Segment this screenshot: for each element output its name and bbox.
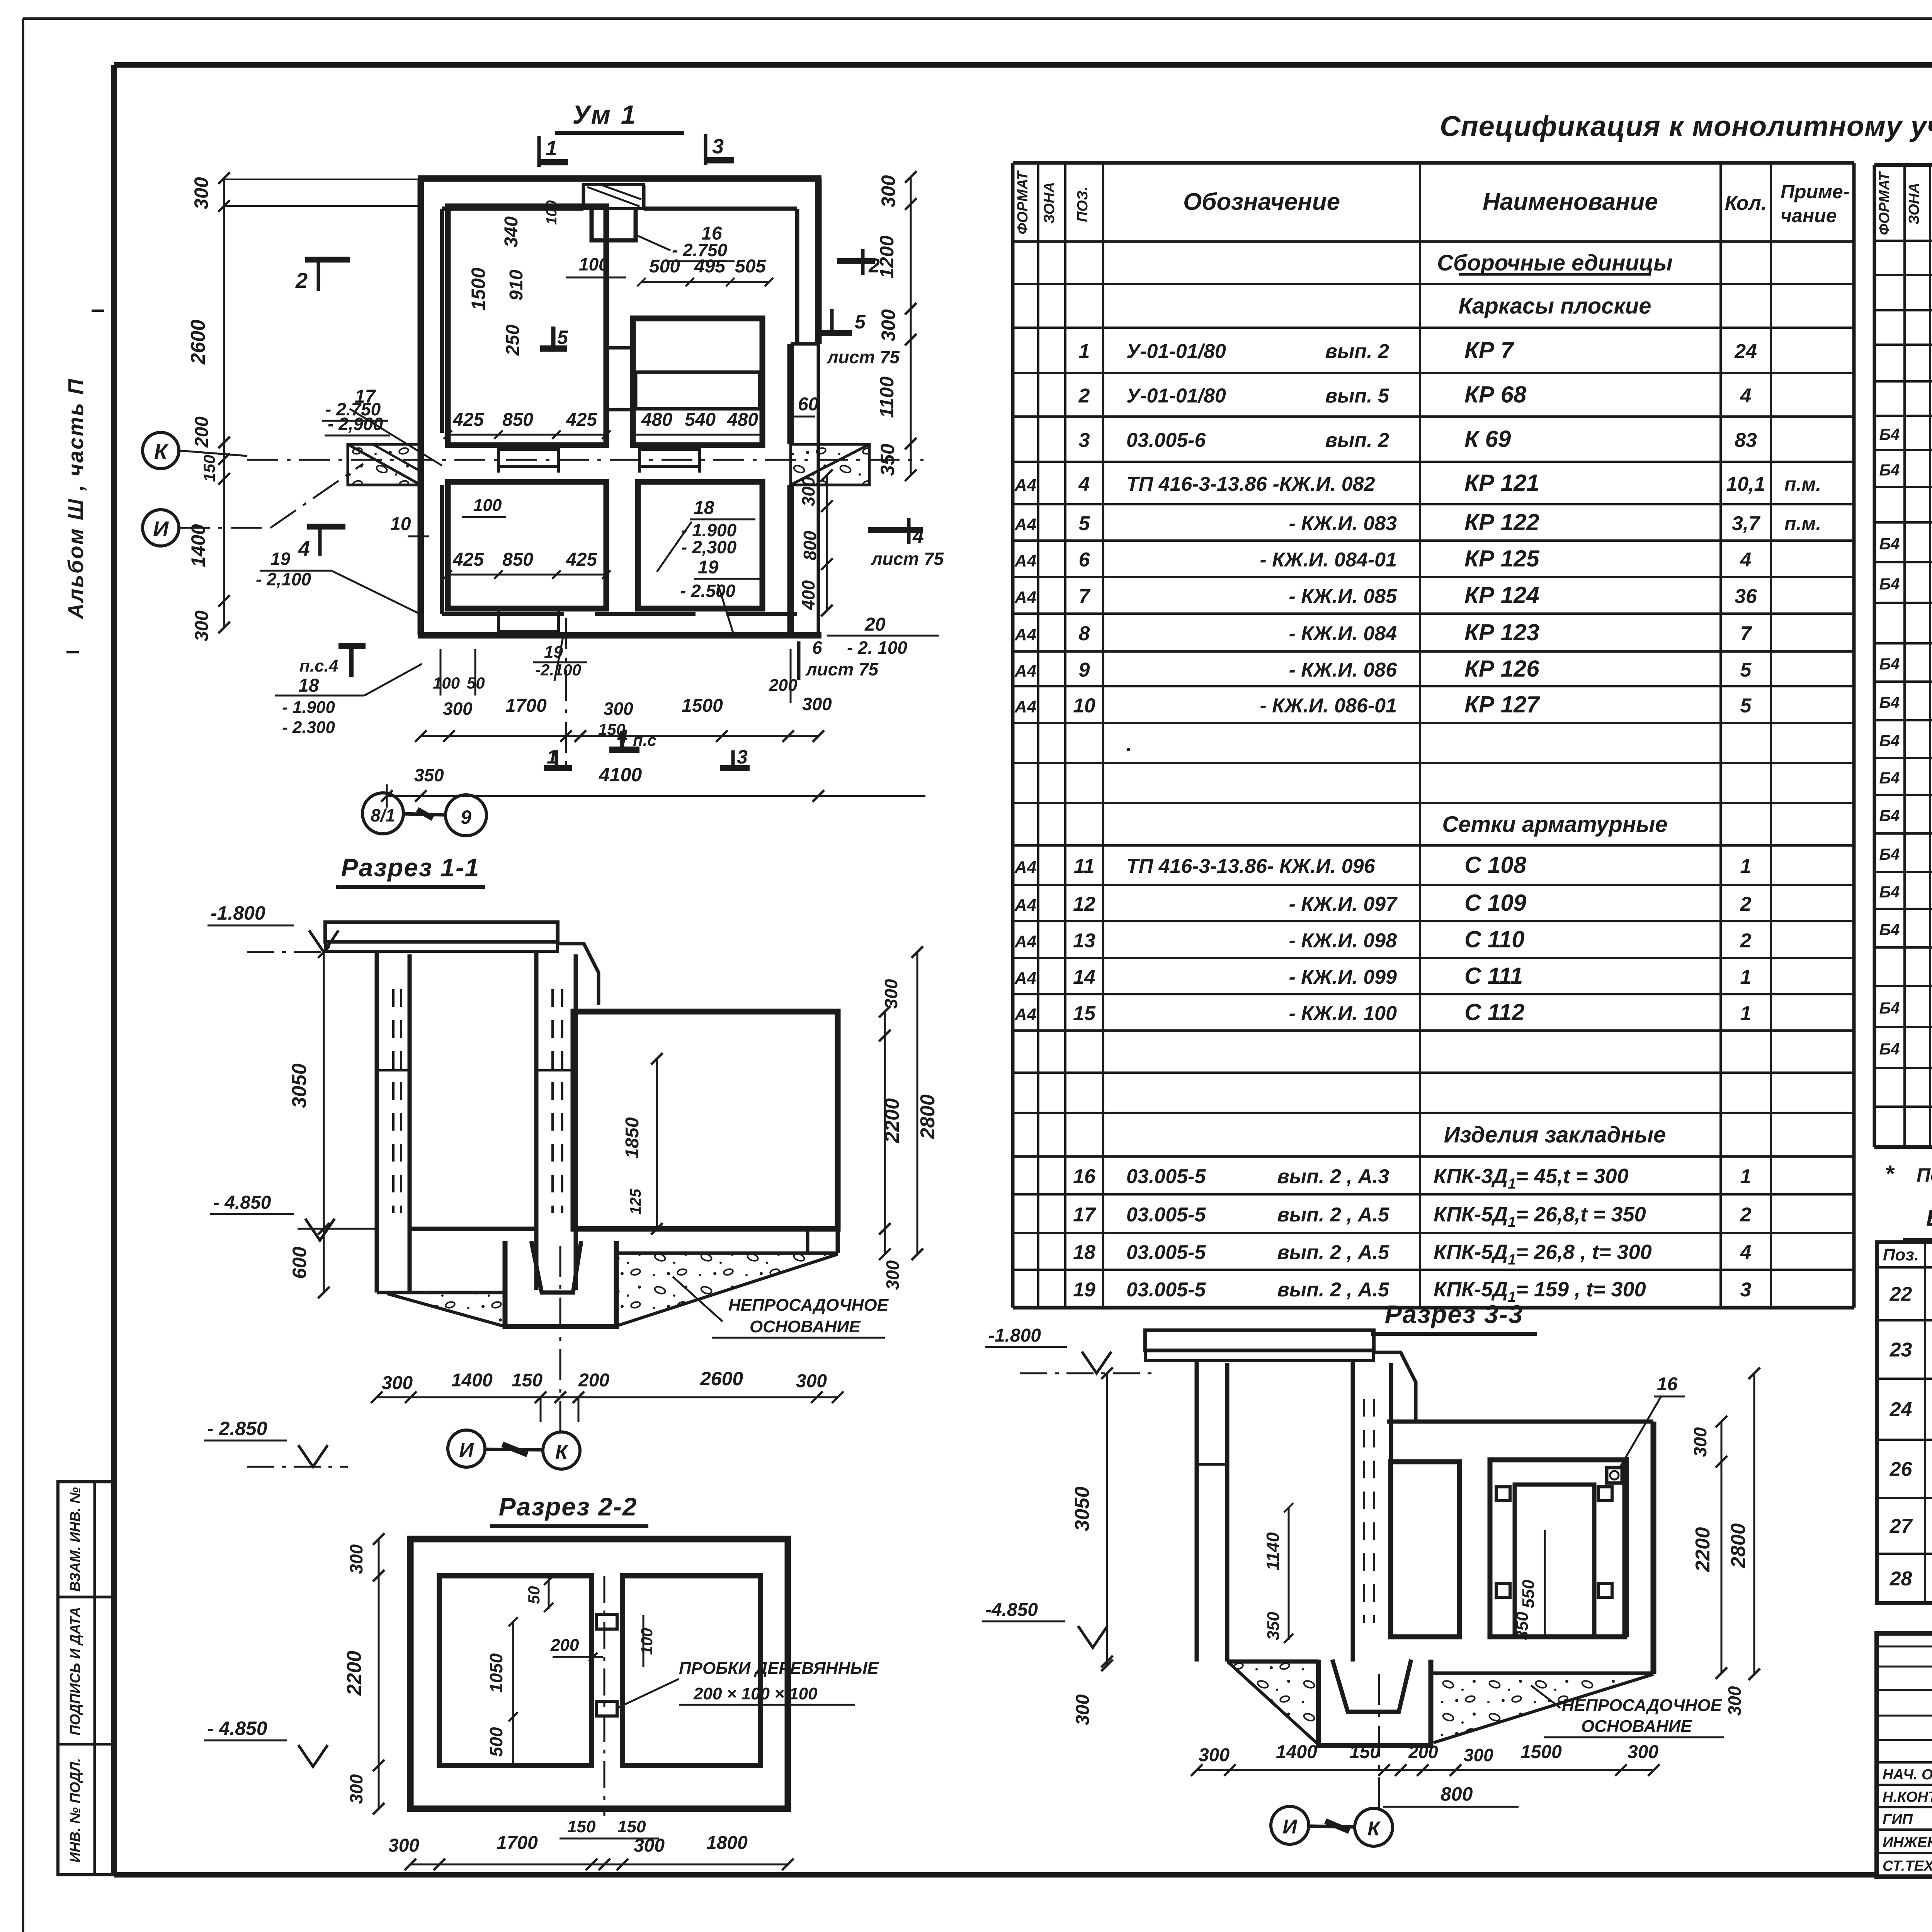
svg-text:- КЖ.И. 084-01: - КЖ.И. 084-01 — [1260, 549, 1397, 571]
svg-text:300: 300 — [1073, 1694, 1093, 1725]
svg-text:300: 300 — [346, 1774, 366, 1804]
svg-text:КР 122: КР 122 — [1464, 509, 1539, 535]
svg-text:14: 14 — [1073, 966, 1095, 988]
svg-text:1500: 1500 — [1520, 1742, 1562, 1762]
svg-text:6: 6 — [812, 638, 822, 658]
svg-text:5: 5 — [1079, 512, 1090, 535]
svg-text:350: 350 — [414, 765, 444, 785]
svg-text:п.с: п.с — [633, 731, 656, 749]
svg-text:200: 200 — [192, 417, 212, 448]
svg-text:300: 300 — [798, 476, 818, 506]
svg-text:03.005-5: 03.005-5 — [1126, 1204, 1206, 1226]
svg-text:350: 350 — [1264, 1612, 1283, 1640]
svg-text:- КЖ.И. 084: - КЖ.И. 084 — [1289, 622, 1397, 645]
svg-text:Б4: Б4 — [1879, 999, 1900, 1017]
svg-text:1400: 1400 — [187, 524, 209, 567]
svg-text:425: 425 — [452, 410, 484, 430]
svg-text:Б4: Б4 — [1879, 535, 1900, 553]
svg-text:- 2.750: - 2.750 — [672, 240, 728, 260]
svg-text:300: 300 — [878, 175, 899, 207]
svg-text:КР 127: КР 127 — [1464, 692, 1540, 718]
svg-text:300: 300 — [382, 1373, 413, 1393]
svg-text:- КЖ.И. 086: - КЖ.И. 086 — [1289, 659, 1398, 681]
svg-text:А4: А4 — [1014, 1005, 1036, 1024]
svg-text:150: 150 — [598, 720, 625, 738]
svg-text:4100: 4100 — [599, 764, 642, 786]
svg-text:-4.850: -4.850 — [985, 1600, 1038, 1620]
svg-text:ЗОНА: ЗОНА — [1041, 182, 1058, 224]
svg-text:800: 800 — [1440, 1783, 1473, 1805]
svg-text:300: 300 — [1199, 1745, 1230, 1765]
svg-text:вып. 2 , А.5: вып. 2 , А.5 — [1277, 1279, 1389, 1301]
svg-text:Б4: Б4 — [1879, 883, 1900, 901]
svg-text:17: 17 — [1073, 1204, 1096, 1226]
svg-text:Б4: Б4 — [1879, 655, 1900, 673]
svg-text:150: 150 — [200, 455, 218, 482]
svg-text:- КЖ.И. 083: - КЖ.И. 083 — [1289, 512, 1397, 535]
svg-text:5: 5 — [1740, 695, 1752, 717]
svg-text:425: 425 — [452, 549, 484, 570]
svg-text:вып. 2 , А.5: вып. 2 , А.5 — [1277, 1204, 1389, 1226]
svg-text:- 2,100: - 2,100 — [256, 569, 311, 589]
svg-text:Сетки арматурные: Сетки арматурные — [1442, 812, 1667, 837]
svg-text:2200: 2200 — [343, 1651, 366, 1696]
svg-text:300: 300 — [1464, 1745, 1493, 1765]
svg-text:03.005-5: 03.005-5 — [1126, 1242, 1206, 1264]
svg-text:А4: А4 — [1014, 476, 1036, 495]
svg-text:ОСНОВАНИЕ: ОСНОВАНИЕ — [1581, 1717, 1692, 1736]
svg-text:3,7: 3,7 — [1732, 512, 1760, 535]
svg-text:ГИП: ГИП — [1883, 1811, 1913, 1828]
svg-text:300: 300 — [1628, 1742, 1658, 1762]
svg-text:ТП 416-3-13.86- КЖ.И. 096: ТП 416-3-13.86- КЖ.И. 096 — [1126, 855, 1376, 878]
svg-text:2200: 2200 — [881, 1098, 903, 1143]
svg-text:Приме-: Приме- — [1781, 181, 1850, 202]
svg-text:7: 7 — [1740, 622, 1752, 645]
svg-text:- 2,900: - 2,900 — [328, 414, 383, 434]
svg-text:Альбом Ш , часть П: Альбом Ш , часть П — [63, 378, 88, 620]
svg-text:300: 300 — [190, 177, 212, 209]
svg-text:2: 2 — [1740, 1204, 1752, 1226]
svg-text:800: 800 — [800, 531, 820, 560]
svg-text:Сборочные единицы: Сборочные единицы — [1437, 250, 1673, 276]
svg-text:2600: 2600 — [187, 320, 209, 365]
svg-text:4: 4 — [1740, 549, 1752, 571]
svg-text:2: 2 — [868, 255, 880, 277]
svg-text:2800: 2800 — [1727, 1523, 1750, 1568]
svg-text:300: 300 — [443, 699, 473, 719]
svg-text:18: 18 — [298, 675, 319, 696]
svg-text:100: 100 — [579, 254, 609, 274]
svg-text:НЕПРОСАДОЧНОЕ: НЕПРОСАДОЧНОЕ — [728, 1296, 889, 1315]
svg-text:3: 3 — [712, 135, 724, 158]
svg-text:- 2.300: - 2.300 — [282, 718, 335, 737]
svg-text:лист 75: лист 75 — [871, 549, 944, 569]
svg-text:Б4: Б4 — [1879, 769, 1900, 787]
svg-text:ТП 416-3-13.86 -КЖ.И. 082: ТП 416-3-13.86 -КЖ.И. 082 — [1126, 473, 1375, 495]
svg-text:1400: 1400 — [451, 1370, 493, 1391]
svg-text:Б4: Б4 — [1879, 731, 1900, 750]
svg-text:КР 126: КР 126 — [1464, 656, 1539, 682]
svg-text:03.005-6: 03.005-6 — [1126, 429, 1206, 452]
svg-text:20: 20 — [864, 614, 886, 635]
svg-text:ПОЗ.: ПОЗ. — [1075, 187, 1091, 222]
svg-text:4: 4 — [1740, 1242, 1752, 1264]
svg-text:1850: 1850 — [622, 1117, 643, 1158]
svg-text:425: 425 — [566, 410, 597, 430]
svg-text:03.005-5: 03.005-5 — [1126, 1165, 1206, 1188]
svg-text:С 112: С 112 — [1464, 999, 1525, 1025]
svg-text:4: 4 — [298, 537, 310, 560]
svg-text:10: 10 — [390, 514, 411, 534]
svg-text:1100: 1100 — [876, 376, 898, 418]
svg-text:- 1.900: - 1.900 — [282, 698, 335, 717]
svg-text:3050: 3050 — [288, 1063, 311, 1108]
svg-text:- 4.850: - 4.850 — [207, 1718, 267, 1739]
svg-text:3: 3 — [1079, 429, 1090, 452]
svg-text:350: 350 — [877, 444, 898, 476]
svg-text:1: 1 — [546, 137, 557, 160]
svg-text:2: 2 — [295, 268, 308, 293]
svg-text:К: К — [555, 1441, 569, 1463]
svg-text:4: 4 — [912, 525, 924, 548]
svg-text:11: 11 — [1074, 855, 1095, 878]
svg-text:Б4: Б4 — [1879, 461, 1900, 479]
svg-text:С 111: С 111 — [1464, 963, 1523, 989]
svg-text:Б4: Б4 — [1879, 425, 1900, 444]
svg-text:60: 60 — [798, 394, 819, 415]
svg-text:- КЖ.И. 100: - КЖ.И. 100 — [1289, 1002, 1397, 1025]
svg-text:200: 200 — [550, 1636, 579, 1655]
svg-text:- 2. 100: - 2. 100 — [847, 638, 907, 658]
svg-text:5: 5 — [1740, 659, 1752, 681]
svg-text:ИНЖЕНЕР: ИНЖЕНЕР — [1883, 1835, 1932, 1851]
svg-text:26: 26 — [1889, 1458, 1913, 1481]
svg-text:КР 68: КР 68 — [1464, 382, 1527, 408]
svg-text:36: 36 — [1735, 585, 1757, 608]
svg-text:8: 8 — [1079, 622, 1090, 645]
svg-text:19: 19 — [270, 549, 291, 569]
svg-text:22: 22 — [1889, 1283, 1912, 1306]
svg-text:19: 19 — [698, 557, 719, 578]
svg-text:вып. 2: вып. 2 — [1325, 429, 1389, 452]
svg-text:.: . — [1126, 733, 1132, 755]
svg-text:1800: 1800 — [706, 1833, 748, 1853]
svg-text:- КЖ.И. 086-01: - КЖ.И. 086-01 — [1260, 695, 1397, 717]
svg-text:КР 7: КР 7 — [1464, 337, 1515, 363]
svg-text:83: 83 — [1735, 429, 1757, 452]
svg-text:850: 850 — [502, 549, 533, 570]
svg-text:лист 75: лист 75 — [805, 659, 879, 679]
svg-text:300: 300 — [881, 979, 901, 1009]
svg-text:480: 480 — [641, 410, 672, 430]
svg-text:4: 4 — [1740, 385, 1752, 407]
svg-text:И: И — [1282, 1816, 1298, 1838]
svg-text:300: 300 — [346, 1544, 366, 1574]
svg-text:350: 350 — [1513, 1612, 1532, 1640]
svg-text:8/1: 8/1 — [371, 805, 395, 825]
svg-text:А4: А4 — [1014, 588, 1036, 607]
svg-text:200: 200 — [1408, 1742, 1438, 1762]
svg-text:1700: 1700 — [505, 696, 547, 716]
svg-text:ВЗАМ. ИНВ. №: ВЗАМ. ИНВ. № — [67, 1487, 83, 1592]
svg-text:И: И — [459, 1439, 474, 1461]
svg-text:вып. 5: вып. 5 — [1325, 385, 1389, 407]
svg-text:КР 124: КР 124 — [1464, 582, 1539, 608]
svg-text:200 × 100 × 100: 200 × 100 × 100 — [693, 1684, 818, 1703]
svg-text:300: 300 — [796, 1371, 827, 1391]
svg-text:НЕПРОСАДОЧНОЕ: НЕПРОСАДОЧНОЕ — [1562, 1696, 1723, 1715]
svg-text:Б4: Б4 — [1879, 920, 1900, 939]
svg-text:300: 300 — [883, 1260, 903, 1290]
svg-text:300: 300 — [1690, 1427, 1710, 1457]
svg-text:Кол.: Кол. — [1725, 192, 1767, 214]
svg-text:1: 1 — [1740, 1165, 1752, 1188]
svg-text:150: 150 — [617, 1817, 646, 1836]
svg-text:Позиции 22... 24 , 26... 28 с: Позиции 22... 24 , 26... 28 см. ведомост… — [1917, 1164, 1932, 1186]
svg-text:03.005-5: 03.005-5 — [1126, 1279, 1206, 1301]
svg-text:А4: А4 — [1014, 858, 1036, 877]
svg-text:150: 150 — [567, 1817, 596, 1836]
svg-text:600: 600 — [289, 1247, 310, 1279]
svg-text:Б4: Б4 — [1879, 1040, 1900, 1058]
svg-text:9: 9 — [1079, 659, 1090, 681]
svg-text:ПОДПИСЬ И ДАТА: ПОДПИСЬ И ДАТА — [67, 1607, 83, 1736]
svg-text:2: 2 — [1740, 893, 1752, 915]
svg-text:Ведомость деталей: Ведомость деталей — [1926, 1206, 1932, 1231]
svg-text:Б4: Б4 — [1879, 693, 1900, 711]
svg-text:425: 425 — [566, 549, 597, 570]
svg-text:1500: 1500 — [682, 696, 723, 716]
svg-text:- КЖ.И. 098: - КЖ.И. 098 — [1289, 930, 1397, 952]
svg-text:1050: 1050 — [486, 1653, 506, 1693]
svg-text:1400: 1400 — [1276, 1742, 1317, 1762]
svg-text:12: 12 — [1073, 893, 1095, 915]
svg-text:А4: А4 — [1014, 969, 1036, 988]
svg-text:Б4: Б4 — [1879, 575, 1900, 593]
svg-text:200: 200 — [769, 676, 798, 695]
svg-text:5: 5 — [557, 327, 568, 348]
svg-text:А4: А4 — [1014, 662, 1036, 680]
svg-text:ОСНОВАНИЕ: ОСНОВАНИЕ — [750, 1317, 861, 1336]
svg-text:6: 6 — [1079, 549, 1090, 571]
svg-text:У-01-01/80: У-01-01/80 — [1126, 385, 1226, 407]
svg-text:2: 2 — [1078, 385, 1090, 407]
svg-text:Н.КОНТР.: Н.КОНТР. — [1883, 1789, 1932, 1805]
svg-text:5: 5 — [855, 311, 866, 333]
svg-text:1: 1 — [1079, 340, 1090, 363]
svg-text:п.м.: п.м. — [1784, 513, 1821, 534]
svg-text:КР 125: КР 125 — [1464, 546, 1540, 571]
svg-text:18: 18 — [694, 498, 714, 518]
svg-text:А4: А4 — [1014, 551, 1036, 570]
svg-text:850: 850 — [502, 410, 533, 430]
svg-text:23: 23 — [1889, 1339, 1912, 1361]
svg-text:400: 400 — [798, 580, 818, 610]
svg-text:Разрез 1-1: Разрез 1-1 — [341, 853, 480, 882]
svg-text:150: 150 — [512, 1370, 543, 1391]
svg-text:9: 9 — [461, 806, 471, 828]
svg-text:КР 123: КР 123 — [1464, 619, 1539, 645]
svg-text:ПРОБКИ ДЕРЕВЯННЫЕ: ПРОБКИ ДЕРЕВЯННЫЕ — [679, 1659, 879, 1678]
svg-text:910: 910 — [506, 270, 527, 301]
svg-text:СТ.ТЕХН.: СТ.ТЕХН. — [1883, 1858, 1932, 1874]
svg-text:16: 16 — [1073, 1165, 1096, 1188]
svg-text:Поз.: Поз. — [1883, 1245, 1919, 1264]
svg-text:100: 100 — [473, 496, 502, 515]
svg-text:- 4.850: - 4.850 — [213, 1192, 271, 1213]
svg-text:16: 16 — [1657, 1374, 1678, 1395]
svg-text:300: 300 — [604, 699, 633, 719]
svg-text:Б4: Б4 — [1879, 845, 1900, 863]
svg-text:Изделия закладные: Изделия закладные — [1444, 1122, 1666, 1148]
svg-text:С 108: С 108 — [1464, 852, 1527, 878]
svg-text:Наименование: Наименование — [1483, 189, 1658, 215]
svg-text:1: 1 — [1740, 1002, 1752, 1025]
svg-text:-1.800: -1.800 — [988, 1325, 1041, 1346]
svg-text:А4: А4 — [1014, 697, 1036, 716]
svg-text:300: 300 — [192, 611, 212, 641]
svg-text:24: 24 — [1734, 340, 1757, 363]
svg-text:300: 300 — [878, 309, 899, 342]
svg-text:- 2.500: - 2.500 — [680, 581, 736, 601]
svg-text:27: 27 — [1889, 1515, 1913, 1537]
svg-text:150: 150 — [1349, 1742, 1380, 1762]
svg-text:Спецификация к монолитному: Спецификация к монолитному участку Ум 1 — [1440, 110, 1932, 142]
svg-text:Каркасы плоские: Каркасы плоские — [1458, 294, 1651, 319]
svg-text:200: 200 — [578, 1370, 609, 1391]
svg-text:24: 24 — [1889, 1398, 1912, 1421]
svg-text:А4: А4 — [1014, 515, 1036, 534]
svg-text:вып. 2 , А.5: вып. 2 , А.5 — [1277, 1242, 1389, 1264]
svg-text:1500: 1500 — [468, 267, 489, 310]
svg-text:1: 1 — [1740, 966, 1752, 988]
svg-text:250: 250 — [503, 325, 523, 356]
svg-text:К: К — [154, 439, 169, 464]
svg-text:- КЖ.И. 097: - КЖ.И. 097 — [1289, 893, 1398, 915]
svg-text:550: 550 — [1519, 1580, 1538, 1608]
svg-text:340: 340 — [501, 216, 522, 247]
svg-text:*: * — [1885, 1161, 1895, 1187]
svg-text:2600: 2600 — [700, 1368, 743, 1389]
svg-text:п.с.4: п.с.4 — [299, 656, 338, 675]
svg-text:С 109: С 109 — [1464, 890, 1527, 916]
svg-text:100: 100 — [638, 1628, 656, 1655]
svg-text:3: 3 — [1740, 1279, 1752, 1301]
svg-text:480: 480 — [727, 410, 758, 430]
svg-text:К 69: К 69 — [1464, 426, 1511, 452]
svg-text:вып. 2 , А.3: вып. 2 , А.3 — [1277, 1165, 1389, 1188]
svg-text:1700: 1700 — [497, 1833, 538, 1853]
svg-text:-1.800: -1.800 — [211, 902, 265, 924]
svg-text:1: 1 — [547, 746, 558, 768]
svg-text:300: 300 — [1725, 1686, 1745, 1716]
svg-text:А4: А4 — [1014, 625, 1036, 644]
svg-text:ФОРМАТ: ФОРМАТ — [1015, 170, 1031, 235]
svg-text:С 110: С 110 — [1464, 927, 1525, 952]
svg-text:28: 28 — [1889, 1568, 1912, 1590]
svg-text:А4: А4 — [1014, 932, 1036, 951]
svg-text:100: 100 — [544, 200, 560, 224]
svg-text:п.м.: п.м. — [1784, 473, 1821, 495]
svg-text:2200: 2200 — [1692, 1527, 1714, 1572]
svg-text:540: 540 — [685, 410, 716, 430]
svg-text:4: 4 — [1078, 473, 1090, 495]
svg-text:Б4: Б4 — [1879, 806, 1900, 825]
svg-text:2: 2 — [1740, 930, 1752, 952]
svg-text:- 2,300: - 2,300 — [681, 537, 737, 557]
svg-text:125: 125 — [627, 1189, 644, 1214]
svg-text:ФОРМАТ: ФОРМАТ — [1876, 171, 1893, 235]
svg-text:Разрез 3-3: Разрез 3-3 — [1385, 1300, 1524, 1328]
svg-text:У-01-01/80: У-01-01/80 — [1126, 340, 1226, 363]
svg-text:А4: А4 — [1014, 896, 1036, 915]
svg-text:10: 10 — [1073, 695, 1095, 717]
svg-text:КР 121: КР 121 — [1464, 470, 1539, 496]
svg-text:лист 75: лист 75 — [827, 347, 900, 367]
svg-text:15: 15 — [1073, 1002, 1096, 1025]
svg-text:1140: 1140 — [1263, 1532, 1283, 1570]
svg-text:3: 3 — [737, 746, 748, 768]
svg-text:100: 100 — [433, 674, 460, 692]
svg-text:13: 13 — [1073, 930, 1095, 952]
svg-text:505: 505 — [735, 256, 766, 277]
svg-text:И: И — [153, 517, 169, 541]
svg-text:Ум 1: Ум 1 — [572, 100, 637, 129]
svg-text:- КЖ.И. 085: - КЖ.И. 085 — [1289, 585, 1398, 608]
svg-text:Разрез 2-2: Разрез 2-2 — [499, 1492, 638, 1521]
svg-text:чание: чание — [1781, 205, 1837, 226]
svg-text:ИНВ. № ПОДЛ.: ИНВ. № ПОДЛ. — [67, 1758, 83, 1863]
svg-text:1: 1 — [1740, 855, 1752, 878]
svg-text:- КЖ.И. 099: - КЖ.И. 099 — [1289, 966, 1397, 988]
svg-text:19: 19 — [1073, 1279, 1095, 1301]
svg-text:18: 18 — [1073, 1242, 1095, 1264]
svg-text:НАЧ. ОТП: НАЧ. ОТП — [1883, 1767, 1932, 1783]
svg-text:К: К — [1367, 1818, 1381, 1840]
svg-text:3050: 3050 — [1071, 1486, 1094, 1531]
svg-text:Обозначение: Обозначение — [1183, 189, 1340, 215]
svg-text:500: 500 — [486, 1727, 506, 1757]
svg-text:50: 50 — [525, 1586, 543, 1604]
svg-text:вып. 2: вып. 2 — [1325, 340, 1389, 363]
svg-text:2800: 2800 — [917, 1094, 939, 1139]
svg-text:7: 7 — [1079, 585, 1091, 608]
svg-text:ЗОНА: ЗОНА — [1906, 183, 1922, 224]
svg-text:10,1: 10,1 — [1726, 473, 1765, 495]
svg-text:300: 300 — [802, 694, 832, 714]
svg-text:300: 300 — [388, 1835, 419, 1856]
svg-text:- 2.850: - 2.850 — [207, 1418, 267, 1439]
